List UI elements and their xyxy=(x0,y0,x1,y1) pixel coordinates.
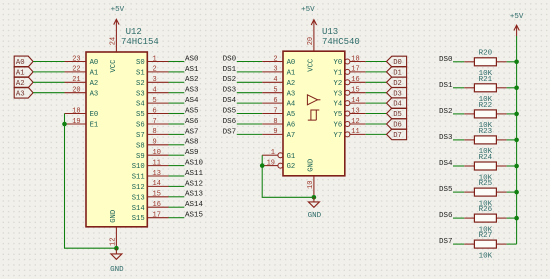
svg-text:D6: D6 xyxy=(393,122,402,130)
label AS0 xyxy=(185,55,199,63)
U13 pin 14 (Y4) xyxy=(334,97,366,109)
svg-text:S8: S8 xyxy=(136,142,145,150)
svg-text:A5: A5 xyxy=(287,111,296,119)
wire Y5 to label D5 xyxy=(366,113,387,115)
svg-text:D7: D7 xyxy=(393,132,402,140)
U13 pin 16 (Y2) xyxy=(334,76,366,88)
svg-text:16: 16 xyxy=(351,76,359,84)
U12 pin 11 (S10) xyxy=(132,159,169,171)
svg-text:20: 20 xyxy=(307,37,315,45)
label DS0 xyxy=(223,55,237,63)
svg-text:D3: D3 xyxy=(393,90,402,98)
label AS8 xyxy=(185,139,199,147)
svg-text:A0: A0 xyxy=(90,59,99,67)
svg-text:GND: GND xyxy=(308,212,322,220)
U13 buffer triangle graphic xyxy=(307,95,320,105)
svg-text:S15: S15 xyxy=(132,215,145,223)
power symbol +5V at rail xyxy=(510,13,524,36)
svg-text:S5: S5 xyxy=(136,111,145,119)
U13 pin 5 (A3) xyxy=(262,87,295,99)
junction R21/rail xyxy=(514,86,519,91)
wire DS1 to R21 xyxy=(453,87,464,89)
wire Y6 to label D6 xyxy=(366,123,387,125)
svg-text:GND: GND xyxy=(110,266,124,274)
wire DS4 to U13 pin 6 xyxy=(237,102,262,104)
U13 pin 2 (A0) xyxy=(262,55,295,67)
wire A0 to U12 pin xyxy=(33,61,64,63)
U13 pin 4 (A2) xyxy=(262,76,295,88)
svg-text:A7: A7 xyxy=(287,132,296,140)
wire S14 to label AS14 xyxy=(169,206,185,208)
svg-text:A2: A2 xyxy=(90,80,99,88)
junction R26/rail xyxy=(514,216,519,221)
wire R27 to +5V rail xyxy=(507,243,517,245)
wire S3 to label AS3 xyxy=(169,92,185,94)
svg-text:6: 6 xyxy=(153,107,157,115)
svg-text:1: 1 xyxy=(153,55,157,63)
wire DS7 to U13 pin 9 xyxy=(237,133,262,135)
ground symbol at U12 xyxy=(110,248,124,274)
resistor R24 10K xyxy=(464,154,506,182)
label DS4 at R24 xyxy=(439,160,453,168)
wire S12 to label AS12 xyxy=(169,185,185,187)
svg-text:DS6: DS6 xyxy=(223,118,237,126)
U13 value label 74HC540 xyxy=(322,37,360,47)
svg-text:2: 2 xyxy=(273,55,277,63)
U12 pin 6 (S5) xyxy=(136,107,168,119)
wire DS0 to R20 xyxy=(453,61,464,63)
global label A0 xyxy=(14,56,33,67)
global label D2 xyxy=(387,77,407,88)
label AS12 xyxy=(185,180,203,188)
svg-text:S12: S12 xyxy=(132,184,145,192)
U12 value label 74HC154 xyxy=(121,37,159,47)
svg-text:S6: S6 xyxy=(136,122,145,130)
svg-text:10: 10 xyxy=(307,181,315,189)
U12 pin 8 (S7) xyxy=(136,128,168,140)
resistor R26 10K xyxy=(464,206,506,234)
wire S1 to label AS1 xyxy=(169,71,185,73)
ground symbol at U13 xyxy=(308,197,322,220)
IC U13 74HC540 body xyxy=(283,51,345,176)
U12 pin 3 (S2) xyxy=(136,76,168,88)
svg-text:Y2: Y2 xyxy=(334,80,343,88)
svg-text:Y6: Y6 xyxy=(334,122,343,130)
svg-text:AS15: AS15 xyxy=(185,212,204,220)
label DS1 at R21 xyxy=(439,82,453,90)
U12 pin 21 (A2) xyxy=(65,76,99,88)
svg-text:11: 11 xyxy=(153,159,161,167)
svg-text:DS5: DS5 xyxy=(439,186,453,194)
U12 pin 4 (S3) xyxy=(136,87,168,99)
svg-text:15: 15 xyxy=(153,191,161,199)
svg-text:S4: S4 xyxy=(136,101,145,109)
IC U12 74HC154 body xyxy=(86,52,147,227)
label AS2 xyxy=(185,76,199,84)
svg-text:S3: S3 xyxy=(136,90,145,98)
U12 pin 13 (S11) xyxy=(132,170,169,182)
svg-text:DS0: DS0 xyxy=(439,56,453,64)
U13 pin 3 (A1) xyxy=(262,66,295,78)
wire R25 to +5V rail xyxy=(507,191,517,193)
label DS2 at R22 xyxy=(439,108,453,116)
U12 pin 2 (S1) xyxy=(136,66,168,78)
label DS7 at R27 xyxy=(439,238,453,246)
U12 pin 14 (S12) xyxy=(132,180,169,192)
svg-text:10K: 10K xyxy=(479,252,493,260)
svg-text:14: 14 xyxy=(153,180,161,188)
U13 pin 12 (Y6) xyxy=(334,118,366,130)
svg-text:13: 13 xyxy=(153,170,161,178)
svg-text:Y5: Y5 xyxy=(334,111,343,119)
svg-text:DS3: DS3 xyxy=(223,87,237,95)
svg-text:AS9: AS9 xyxy=(185,149,199,157)
svg-text:DS1: DS1 xyxy=(439,82,453,90)
U12 pin 16 (S14) xyxy=(132,201,169,213)
svg-text:AS10: AS10 xyxy=(185,160,204,168)
wire E0/E1 to GND net xyxy=(65,114,117,249)
label DS3 xyxy=(223,87,237,95)
label AS10 xyxy=(185,160,204,168)
svg-text:18: 18 xyxy=(351,55,359,63)
svg-text:S7: S7 xyxy=(136,132,145,140)
svg-text:Y1: Y1 xyxy=(334,70,343,78)
resistor R21 10K xyxy=(464,76,506,104)
global label A1 xyxy=(14,67,33,78)
label AS9 xyxy=(185,149,199,157)
global label D0 xyxy=(387,56,407,67)
svg-text:3: 3 xyxy=(153,76,157,84)
svg-text:E0: E0 xyxy=(90,111,99,119)
wire DS6 to R26 xyxy=(453,217,464,219)
svg-text:A3: A3 xyxy=(287,90,296,98)
junction at U12 GND xyxy=(114,246,119,251)
wire Y4 to label D4 xyxy=(366,102,387,104)
svg-text:2: 2 xyxy=(153,66,157,74)
svg-text:AS12: AS12 xyxy=(185,180,203,188)
svg-text:AS8: AS8 xyxy=(185,139,199,147)
resistor R23 10K xyxy=(464,128,506,156)
svg-text:AS6: AS6 xyxy=(185,118,199,126)
svg-text:A6: A6 xyxy=(287,122,296,130)
wire DS7 to R27 xyxy=(453,243,464,245)
wire DS5 to U13 pin 7 xyxy=(237,113,262,115)
power symbol +5V at U12 xyxy=(111,6,125,24)
svg-text:G2: G2 xyxy=(287,163,296,171)
svg-text:15: 15 xyxy=(351,87,359,95)
U12 pin 10 (S9) xyxy=(136,149,168,161)
U12 pin 15 (S13) xyxy=(132,191,169,203)
wire Y7 to label D7 xyxy=(366,133,387,135)
svg-text:DS0: DS0 xyxy=(223,55,237,63)
svg-text:DS2: DS2 xyxy=(223,76,237,84)
resistor R27 10K xyxy=(464,232,506,260)
svg-text:DS2: DS2 xyxy=(439,108,453,116)
U13 reference label xyxy=(322,27,338,37)
label AS5 xyxy=(185,108,199,116)
label DS6 at R26 xyxy=(439,212,453,220)
global label A3 xyxy=(14,87,33,98)
U12 pin 17 (S15) xyxy=(132,212,169,224)
label AS15 xyxy=(185,212,204,220)
wire Y2 to label D2 xyxy=(366,81,387,83)
wire DS3 to R23 xyxy=(453,139,464,141)
global label D1 xyxy=(387,67,407,78)
label DS5 xyxy=(223,108,237,116)
svg-text:18: 18 xyxy=(72,107,80,115)
svg-text:A2: A2 xyxy=(287,80,296,88)
global label D4 xyxy=(387,98,407,109)
label AS3 xyxy=(185,87,199,95)
svg-text:19: 19 xyxy=(267,159,275,167)
label DS2 xyxy=(223,76,237,84)
svg-text:A0: A0 xyxy=(287,59,296,67)
svg-text:Y3: Y3 xyxy=(334,90,343,98)
U13 pin 7 (A5) xyxy=(262,107,295,119)
svg-text:Y7: Y7 xyxy=(334,132,343,140)
svg-text:GND: GND xyxy=(307,159,315,172)
wire A2 to U12 pin xyxy=(33,81,64,83)
resistor R25 10K xyxy=(464,180,506,208)
svg-text:GND: GND xyxy=(110,210,118,223)
U13 pin 6 (A4) xyxy=(262,97,295,109)
svg-text:5: 5 xyxy=(273,87,277,95)
wire Y3 to label D3 xyxy=(366,92,387,94)
global label D5 xyxy=(387,108,407,119)
wire S5 to label AS5 xyxy=(169,113,185,115)
wire S10 to label AS10 xyxy=(169,165,185,167)
svg-text:DS7: DS7 xyxy=(223,128,237,136)
label AS6 xyxy=(185,118,199,126)
svg-text:DS3: DS3 xyxy=(439,134,453,142)
svg-text:+5V: +5V xyxy=(301,6,315,14)
svg-text:R23: R23 xyxy=(479,128,493,136)
svg-text:+5V: +5V xyxy=(510,13,524,21)
U12 reference label xyxy=(126,27,142,37)
svg-text:74HC154: 74HC154 xyxy=(121,37,159,47)
svg-text:VCC: VCC xyxy=(110,59,118,73)
svg-text:D2: D2 xyxy=(393,80,402,88)
U13 pin 15 (Y3) xyxy=(334,87,366,99)
svg-text:AS2: AS2 xyxy=(185,76,199,84)
wire DS1 to U13 pin 3 xyxy=(237,71,262,73)
svg-text:+5V: +5V xyxy=(111,6,125,14)
svg-text:10: 10 xyxy=(153,149,161,157)
wire DS4 to R24 xyxy=(453,165,464,167)
svg-text:S13: S13 xyxy=(132,194,145,202)
wire S9 to label AS9 xyxy=(169,154,185,156)
svg-text:8: 8 xyxy=(273,118,277,126)
U13 pin 1 (G1) xyxy=(262,149,295,161)
svg-text:74HC540: 74HC540 xyxy=(322,37,360,47)
U13 GND pin 10 xyxy=(307,159,315,197)
svg-text:R27: R27 xyxy=(479,232,493,240)
U13 pin 9 (A7) xyxy=(262,128,295,140)
svg-text:S9: S9 xyxy=(136,153,145,161)
label AS4 xyxy=(185,97,199,105)
svg-text:AS3: AS3 xyxy=(185,87,199,95)
svg-text:D5: D5 xyxy=(393,111,402,119)
U12 pin 9 (S8) xyxy=(136,139,168,151)
U12 VCC pin 24 xyxy=(110,19,118,72)
label DS0 at R20 xyxy=(439,56,453,64)
svg-text:24: 24 xyxy=(110,37,118,45)
label AS14 xyxy=(185,201,204,209)
svg-text:DS6: DS6 xyxy=(439,212,453,220)
U13 pin 18 (Y0) xyxy=(334,55,366,67)
svg-text:AS5: AS5 xyxy=(185,108,199,116)
U13 pin 19 (G2) xyxy=(262,159,295,171)
wire DS2 to U13 pin 4 xyxy=(237,81,262,83)
junction R25/rail xyxy=(514,190,519,195)
svg-text:AS1: AS1 xyxy=(185,66,199,74)
wire +5V rail vertical xyxy=(516,36,518,244)
wire DS0 to U13 pin 2 xyxy=(237,61,262,63)
svg-text:1: 1 xyxy=(271,149,275,157)
svg-text:E1: E1 xyxy=(90,122,99,130)
svg-text:S0: S0 xyxy=(136,59,145,67)
wire DS6 to U13 pin 8 xyxy=(237,123,262,125)
wire S2 to label AS2 xyxy=(169,81,185,83)
svg-text:Y0: Y0 xyxy=(334,59,343,67)
label DS1 xyxy=(223,66,237,74)
wire S7 to label AS7 xyxy=(169,133,185,135)
label AS1 xyxy=(185,66,199,74)
svg-text:G1: G1 xyxy=(287,153,296,161)
resistor R22 10K xyxy=(464,102,506,130)
U12 pin 5 (S4) xyxy=(136,97,168,109)
U12 pin 7 (S6) xyxy=(136,118,168,130)
junction R22/rail xyxy=(514,112,519,117)
svg-text:U12: U12 xyxy=(126,27,142,37)
wire R24 to +5V rail xyxy=(507,165,517,167)
power symbol +5V at U13 xyxy=(301,6,316,25)
svg-text:7: 7 xyxy=(273,107,277,115)
wire DS3 to U13 pin 5 xyxy=(237,92,262,94)
svg-text:12: 12 xyxy=(110,238,118,246)
svg-text:AS0: AS0 xyxy=(185,55,199,63)
svg-text:4: 4 xyxy=(153,87,157,95)
svg-text:AS14: AS14 xyxy=(185,201,204,209)
svg-text:3: 3 xyxy=(273,66,277,74)
U12 pin 19 (E1) xyxy=(65,118,99,130)
junction R24/rail xyxy=(514,164,519,169)
svg-text:7: 7 xyxy=(153,118,157,126)
wire R23 to +5V rail xyxy=(507,139,517,141)
label AS13 xyxy=(185,191,204,199)
wire R22 to +5V rail xyxy=(507,113,517,115)
wire DS2 to R22 xyxy=(453,113,464,115)
label DS3 at R23 xyxy=(439,134,453,142)
wire G1/G2 to GND net xyxy=(262,155,314,197)
label DS4 xyxy=(223,97,237,105)
svg-text:12: 12 xyxy=(351,118,359,126)
svg-text:5: 5 xyxy=(153,97,157,105)
svg-text:AS4: AS4 xyxy=(185,97,199,105)
svg-text:DS1: DS1 xyxy=(223,66,237,74)
svg-text:DS4: DS4 xyxy=(223,97,237,105)
svg-text:23: 23 xyxy=(72,55,80,63)
svg-text:17: 17 xyxy=(153,212,161,220)
wire S8 to label AS8 xyxy=(169,144,185,146)
U13 pin 13 (Y5) xyxy=(334,107,366,119)
svg-text:9: 9 xyxy=(153,139,157,147)
U12 pin 1 (S0) xyxy=(136,55,168,67)
svg-text:D0: D0 xyxy=(393,59,402,67)
svg-text:R21: R21 xyxy=(479,76,493,84)
svg-text:VCC: VCC xyxy=(307,58,315,72)
junction at U13 GND xyxy=(312,195,317,200)
svg-text:AS13: AS13 xyxy=(185,191,204,199)
svg-text:R20: R20 xyxy=(479,50,493,58)
U12 pin 20 (A3) xyxy=(65,87,99,99)
wire R26 to +5V rail xyxy=(507,217,517,219)
wire DS5 to R25 xyxy=(453,191,464,193)
U13 pin 17 (Y1) xyxy=(334,66,366,78)
svg-text:4: 4 xyxy=(273,76,277,84)
svg-text:R22: R22 xyxy=(479,102,493,110)
svg-text:21: 21 xyxy=(72,76,80,84)
svg-text:R24: R24 xyxy=(479,154,493,162)
label AS11 xyxy=(185,170,204,178)
svg-text:DS7: DS7 xyxy=(439,238,453,246)
svg-text:20: 20 xyxy=(72,87,80,95)
resistor R20 10K xyxy=(464,50,506,78)
svg-text:S14: S14 xyxy=(132,205,145,213)
wire S15 to label AS15 xyxy=(169,217,185,219)
wire R20 to +5V rail xyxy=(507,61,517,63)
svg-text:Y4: Y4 xyxy=(334,101,343,109)
wire S11 to label AS11 xyxy=(169,175,185,177)
wire R21 to +5V rail xyxy=(507,87,517,89)
wire A3 to U12 pin xyxy=(33,92,64,94)
svg-text:A3: A3 xyxy=(16,90,25,98)
wire S0 to label AS0 xyxy=(169,61,185,63)
svg-text:AS7: AS7 xyxy=(185,128,199,136)
global label D7 xyxy=(387,129,407,140)
junction R20/rail xyxy=(514,60,519,65)
svg-text:A1: A1 xyxy=(90,70,99,78)
svg-text:19: 19 xyxy=(72,118,80,126)
wire S6 to label AS6 xyxy=(169,123,185,125)
svg-text:R26: R26 xyxy=(479,206,493,214)
junction at G2 pin xyxy=(260,163,265,168)
svg-text:S1: S1 xyxy=(136,70,145,78)
U13 VCC pin 20 xyxy=(307,20,315,72)
label DS7 xyxy=(223,128,237,136)
wire Y1 to label D1 xyxy=(366,71,387,73)
svg-text:AS11: AS11 xyxy=(185,170,204,178)
svg-text:11: 11 xyxy=(351,128,359,136)
svg-text:9: 9 xyxy=(273,128,277,136)
U12 GND pin 12 xyxy=(110,210,118,248)
label AS7 xyxy=(185,128,199,136)
junction at E1 pin xyxy=(62,122,67,127)
U12 pin 22 (A1) xyxy=(65,66,99,78)
junction R23/rail xyxy=(514,138,519,143)
svg-text:A3: A3 xyxy=(90,90,99,98)
svg-text:17: 17 xyxy=(351,66,359,74)
wire A1 to U12 pin xyxy=(33,71,64,73)
svg-text:D4: D4 xyxy=(393,101,402,109)
global label D6 xyxy=(387,119,407,130)
svg-text:14: 14 xyxy=(351,97,359,105)
wire S4 to label AS4 xyxy=(169,102,185,104)
U13 pin 11 (Y7) xyxy=(334,128,366,140)
global label A2 xyxy=(14,77,33,88)
label DS5 at R25 xyxy=(439,186,453,194)
label DS6 xyxy=(223,118,237,126)
